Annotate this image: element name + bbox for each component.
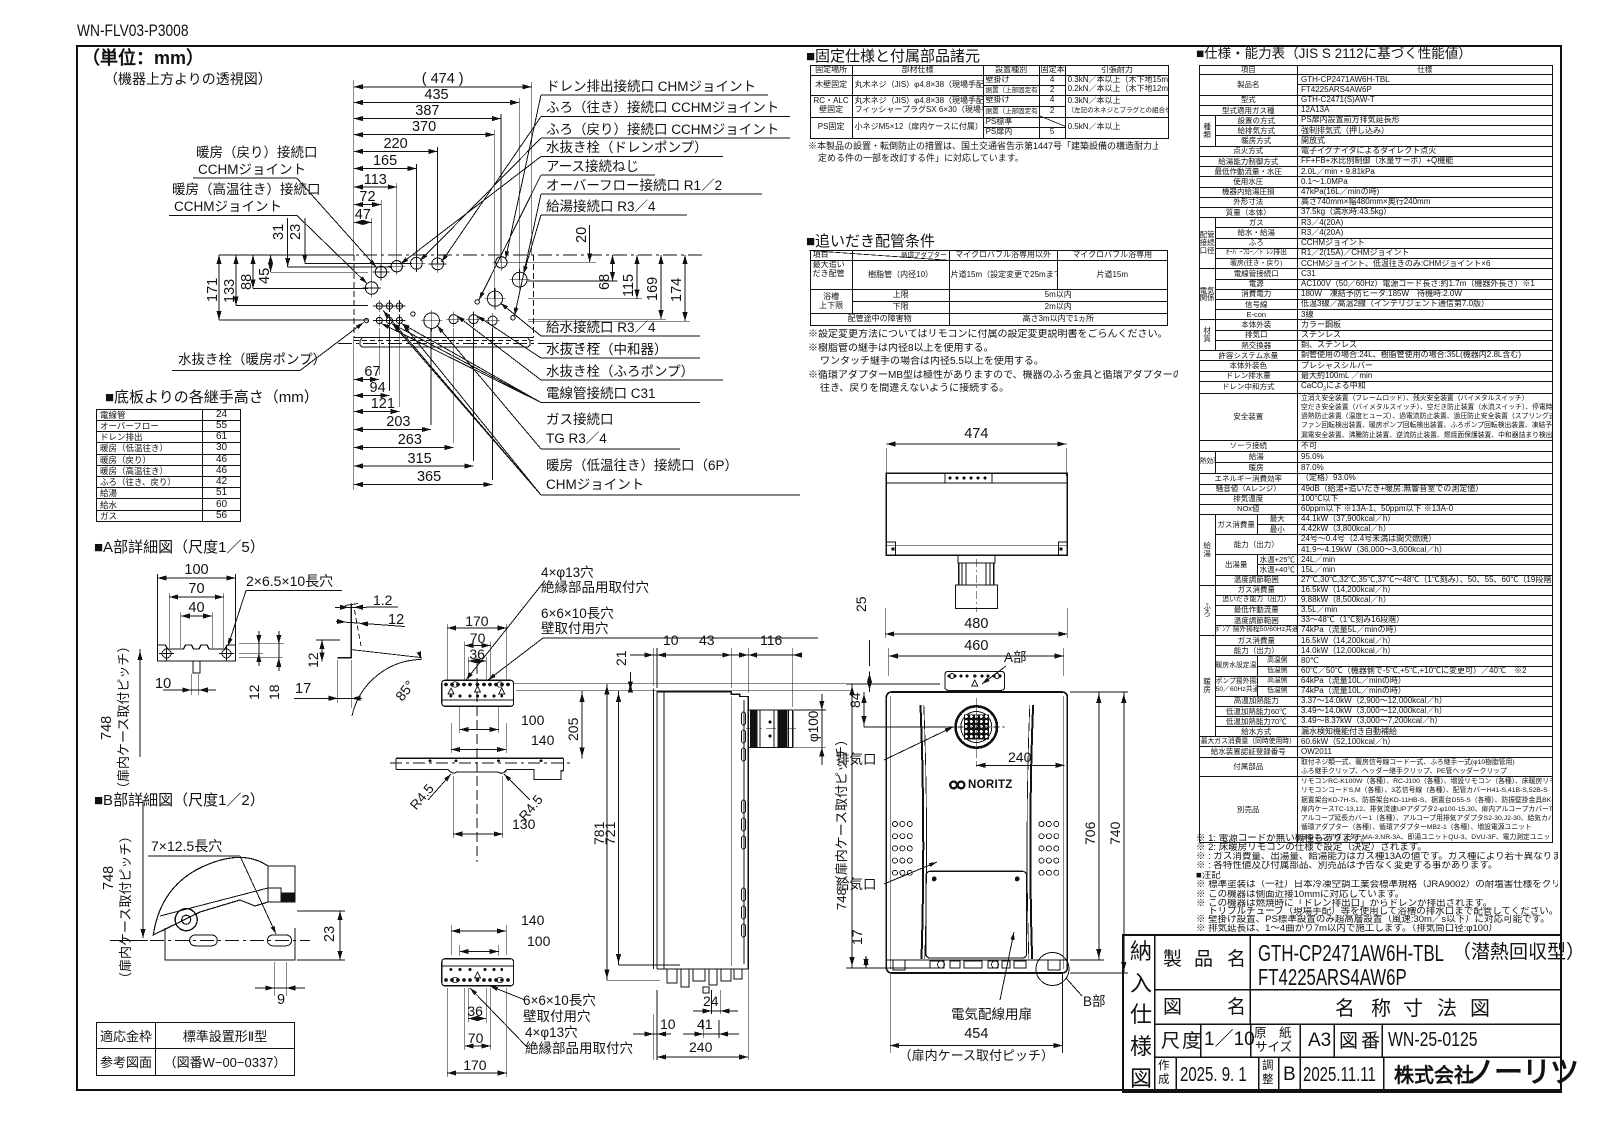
exhaust centerlines	[948, 726, 1004, 728]
dim 94 bottom	[354, 393, 390, 398]
A-part bracket plate	[158, 645, 236, 661]
front view: dim 474 top	[886, 441, 1066, 446]
dim 68 right	[610, 255, 615, 281]
callout: 電線管接続口	[546, 386, 656, 402]
labels: haiki/kyuki	[884, 727, 953, 760]
dim 72 top	[354, 202, 381, 207]
plan view: flue collar	[958, 555, 995, 563]
front view: intake hole groups	[893, 822, 1059, 876]
callout: 水抜き栓（ドレンポン	[546, 140, 708, 156]
top view: unit bottom edge	[354, 337, 534, 339]
A-part wall angle profile	[338, 604, 352, 658]
extension line: left reference bottom	[353, 338, 355, 491]
extension line: chain level to left	[219, 254, 354, 256]
leader	[392, 324, 542, 403]
diagonal in fixing table	[1039, 116, 1066, 127]
spec note	[1196, 899, 1492, 910]
dim 20 right	[589, 225, 591, 262]
port: kyuto R3/4	[509, 269, 530, 290]
dim 220 top	[354, 149, 438, 154]
R4.5 leaders	[428, 774, 451, 800]
front view: plan (top) view box	[886, 473, 1067, 555]
dim 171 left	[216, 255, 221, 320]
port: c2	[388, 258, 405, 275]
leader: callout 2	[541, 116, 790, 118]
B-part dim 23	[339, 911, 341, 960]
dim 721	[618, 691, 620, 965]
spec note	[1196, 880, 1558, 891]
front view: right dims 706/740	[1098, 692, 1100, 960]
top view: unit hidden edges	[353, 255, 355, 338]
dim 435 top	[354, 100, 519, 105]
leader 6P	[383, 311, 541, 496]
maker name	[1394, 1065, 1474, 1088]
table: specification	[1199, 65, 1553, 843]
leader: callout 1	[541, 94, 768, 96]
dim 113 top	[354, 184, 397, 189]
table: spec header	[1196, 46, 1472, 62]
leader: callout 5	[541, 174, 655, 176]
table: fixing spec header	[806, 48, 980, 65]
NORITZ logo	[950, 782, 964, 789]
port: drain haisyutsu	[493, 254, 510, 271]
port: mizunuki danbou pump (tiny)	[364, 318, 368, 322]
callout: ふろ（戻り）接続口	[546, 122, 779, 138]
port cluster: danbou 6P joints	[373, 300, 385, 312]
top bracket dims 170/70/36	[447, 625, 506, 630]
tiny port: overflow dot	[511, 316, 515, 320]
spec note	[1196, 915, 1550, 926]
front view: dim 454	[890, 1043, 1062, 1048]
A-part dim 100	[158, 575, 236, 580]
table: kinwaku	[96, 1022, 295, 1076]
spec note	[1196, 871, 1221, 882]
dim 23	[304, 218, 306, 263]
spec note	[1196, 843, 1427, 854]
dim 387 top	[354, 116, 501, 121]
leader: callout 3	[541, 137, 790, 139]
B-bu detail circle	[1036, 953, 1069, 986]
callout: danbou low temp 6P	[541, 494, 800, 496]
dims 100/140 below top bracket	[460, 727, 499, 732]
B-part right block	[268, 866, 295, 902]
A-part dim 1.2	[335, 606, 398, 609]
exhaust grid	[964, 715, 989, 740]
spec note	[1196, 907, 1558, 918]
top view: center chain line	[338, 254, 703, 256]
dim 315 bottom	[354, 463, 474, 468]
leader: callout 6	[541, 193, 762, 195]
dim 203 bottom	[354, 427, 431, 432]
front view: dim 240 exhaust	[975, 752, 977, 770]
side view: louvers	[742, 712, 746, 725]
side view: body	[657, 692, 748, 969]
dim 130	[453, 831, 503, 836]
front view: dim 460	[889, 653, 1064, 658]
table: fixing spec	[810, 65, 1170, 138]
note oidaki 1	[808, 329, 1168, 341]
bracket triangle marks	[448, 688, 454, 694]
leader	[457, 316, 541, 380]
port: gas TG R3/4	[421, 310, 443, 332]
A-part tab	[193, 661, 200, 673]
spec note	[1196, 834, 1370, 845]
table: oidaki piping	[810, 250, 1168, 327]
B-part bottom plate	[165, 928, 295, 960]
port: c3	[408, 254, 426, 272]
dim 370 top	[354, 132, 495, 137]
side view: bottom dims	[652, 1014, 654, 1060]
front view: left dims 25/84/748/17	[869, 671, 871, 692]
B-part dim 9	[273, 962, 275, 996]
callout: danbou koon yuki	[169, 215, 297, 217]
table: oidaki header	[806, 233, 935, 250]
callout: 給水接続口 R	[546, 320, 656, 336]
callout: danbou modori	[193, 177, 297, 179]
callout: オーバーフロー接続口	[546, 178, 722, 194]
unit note	[82, 48, 204, 69]
dim 121 bottom	[354, 409, 400, 414]
dim 365 bottom	[354, 482, 493, 487]
labels: bottom bracket holes	[490, 986, 525, 1000]
side view: top dims 10/43/116	[652, 648, 654, 686]
document number	[77, 21, 188, 41]
spec note	[1196, 890, 1404, 901]
B-part label 7x12.5	[148, 855, 240, 857]
extension lines up to top dims	[531, 82, 533, 255]
A-part label 2x6.5x10	[246, 590, 342, 592]
side view: flue pipe	[748, 710, 793, 747]
A-part dim 40	[181, 613, 212, 618]
A-part dim 10	[163, 689, 216, 691]
dashed centerline vertical	[476, 664, 478, 862]
A-part profile dim 12 rotated	[319, 640, 324, 662]
port: danbou-koon-yuki	[362, 279, 381, 298]
plan view: top tabs	[945, 473, 992, 483]
port: kyusui R3/4	[484, 288, 505, 309]
leader	[382, 324, 542, 403]
label A-bu	[982, 666, 1006, 684]
front view: dim 480	[885, 631, 1067, 636]
leader: callout 7	[541, 214, 687, 216]
callout: ドレン排出接続口	[546, 79, 756, 95]
A-part dim 70	[169, 594, 224, 599]
B-part pivot	[175, 909, 197, 931]
port: mizunuki chuwaki	[466, 312, 481, 327]
dim 88 left	[250, 255, 255, 288]
B-part latch arm	[160, 888, 281, 916]
dim 169 right	[658, 255, 663, 319]
label: denki hairomon	[1000, 932, 1015, 1000]
A-part dim 17	[294, 697, 362, 699]
dim 174 right	[682, 255, 687, 321]
subtitle	[104, 71, 272, 87]
title block frame	[1122, 934, 1562, 1093]
port: c4	[429, 255, 447, 273]
B-part slot line (chain)	[150, 939, 310, 941]
leader 6P	[403, 325, 541, 496]
bottom bracket dims 140/100 above	[451, 928, 506, 933]
port: danbou-modori (c1)	[372, 263, 389, 280]
callout: ふろ（往き）接続口	[546, 100, 779, 116]
center rail strip	[396, 757, 564, 759]
dim 31	[287, 218, 289, 267]
B-part latch wedge	[153, 857, 268, 935]
front view: case	[886, 692, 1067, 973]
callout: 水抜き栓（ふろポ	[546, 364, 694, 380]
leader	[402, 324, 542, 403]
plan view: side flanges	[886, 542, 895, 555]
tiny port: conduit dot	[411, 312, 415, 316]
dim 133 left	[233, 255, 238, 306]
A-part 748 pitch dim	[139, 649, 141, 757]
B-part 748 pitch dim	[142, 800, 144, 938]
dim 115 right	[634, 255, 639, 299]
diagonal in oidaki header	[810, 251, 949, 261]
tiny port: earth screw	[475, 300, 479, 304]
A-part hole R	[219, 646, 234, 661]
top view: drain pan	[360, 339, 530, 348]
side view: wall line	[652, 689, 654, 969]
front view: top mounting bracket	[945, 671, 1005, 690]
rail notches R4.5	[448, 769, 457, 773]
dim 205	[581, 691, 583, 759]
top bracket hole rows	[445, 683, 448, 686]
callout: gas	[541, 448, 680, 450]
callout: アース接続ねじ	[546, 159, 639, 175]
dim ( 474 ) top	[354, 84, 532, 89]
bottom bracket dims 36/70/170	[468, 1016, 486, 1021]
front view: exhaust port	[956, 706, 997, 747]
leader 6P	[393, 325, 541, 496]
bottom bracket plate	[442, 959, 514, 986]
callout: 給湯接続口 R3／	[546, 199, 656, 215]
A-part hole L	[159, 646, 174, 661]
extension lines down to bottom dims	[378, 328, 380, 375]
table: joint heights	[96, 409, 241, 522]
A-part dim 12/18 rotated	[256, 631, 261, 666]
dim 165 top	[354, 166, 417, 171]
front view: side vent slivers	[921, 705, 924, 959]
spec note	[1196, 852, 1558, 863]
note fixing 1	[808, 141, 1158, 151]
front view: bottom fittings row	[886, 959, 1067, 961]
callout: 水抜き栓（中和器	[546, 342, 668, 358]
top bracket plate	[442, 680, 514, 706]
A-part 85deg arc	[352, 660, 422, 717]
leader	[477, 316, 541, 358]
dim 263 bottom	[354, 445, 454, 450]
extension line: left reference	[353, 80, 355, 255]
dim 67 bottom	[354, 377, 379, 382]
port: k4	[485, 313, 500, 328]
dim phi100	[821, 694, 823, 765]
dim 45 left	[268, 255, 273, 272]
side view: bottom fittings	[667, 969, 677, 983]
dim 47 top	[354, 220, 372, 225]
spec note	[1196, 861, 1497, 872]
port: mizunuki furo pump	[446, 312, 461, 327]
labels: top bracket holes	[466, 583, 543, 680]
dim 781	[606, 684, 608, 981]
title block lines	[1154, 934, 1156, 1093]
callout: mizunuki danbou pump	[172, 370, 300, 372]
B-part slot 1	[190, 935, 218, 946]
leader	[501, 303, 542, 336]
B-part slot 2	[267, 935, 291, 946]
front view: access panel	[926, 871, 1027, 958]
leader: callout 4	[541, 156, 723, 158]
spec note	[1196, 924, 1498, 935]
A-part dim 12 slanted	[336, 622, 405, 627]
dim 21	[629, 672, 631, 690]
